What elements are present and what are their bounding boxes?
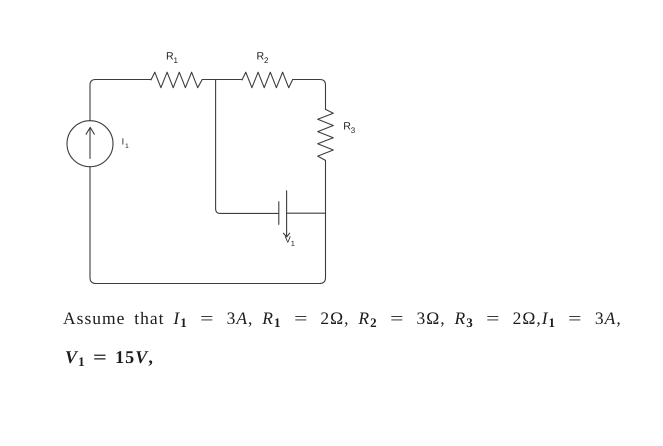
resistor R2 (242, 72, 293, 88)
label R1 (166, 50, 179, 65)
svg-text:2: 2 (264, 56, 269, 65)
current source arrow (89, 128, 91, 159)
resistor R3 (318, 109, 334, 160)
wire battery to right rail (287, 212, 326, 214)
wire top-left corner from current source to R1 (90, 80, 151, 121)
battery V1 short plate (278, 202, 280, 225)
wire R1 to R2 through node A (202, 79, 242, 81)
wire bottom (96, 283, 320, 285)
label I1 (122, 136, 130, 150)
label R3 (343, 121, 356, 136)
wire bottom-left corner up to current source (90, 167, 96, 284)
label V1 (285, 235, 295, 248)
label R2 (257, 50, 270, 65)
wire top-right corner from R2 to R3 (293, 80, 326, 110)
current source I1 circle (67, 121, 113, 167)
resistor R1 (151, 72, 202, 88)
svg-text:1: 1 (174, 56, 179, 65)
wire right rail R3 down to bottom-right corner (320, 160, 326, 283)
wire node A middle branch down to battery (216, 80, 279, 213)
svg-text:1: 1 (291, 239, 295, 248)
problem statement line 1 (63, 308, 622, 329)
svg-text:I: I (122, 136, 125, 146)
svg-text:3: 3 (351, 126, 356, 135)
svg-text:1: 1 (125, 143, 129, 150)
problem statement line 2 (65, 347, 154, 368)
battery V1 long plate with voltage arrow (286, 191, 288, 237)
